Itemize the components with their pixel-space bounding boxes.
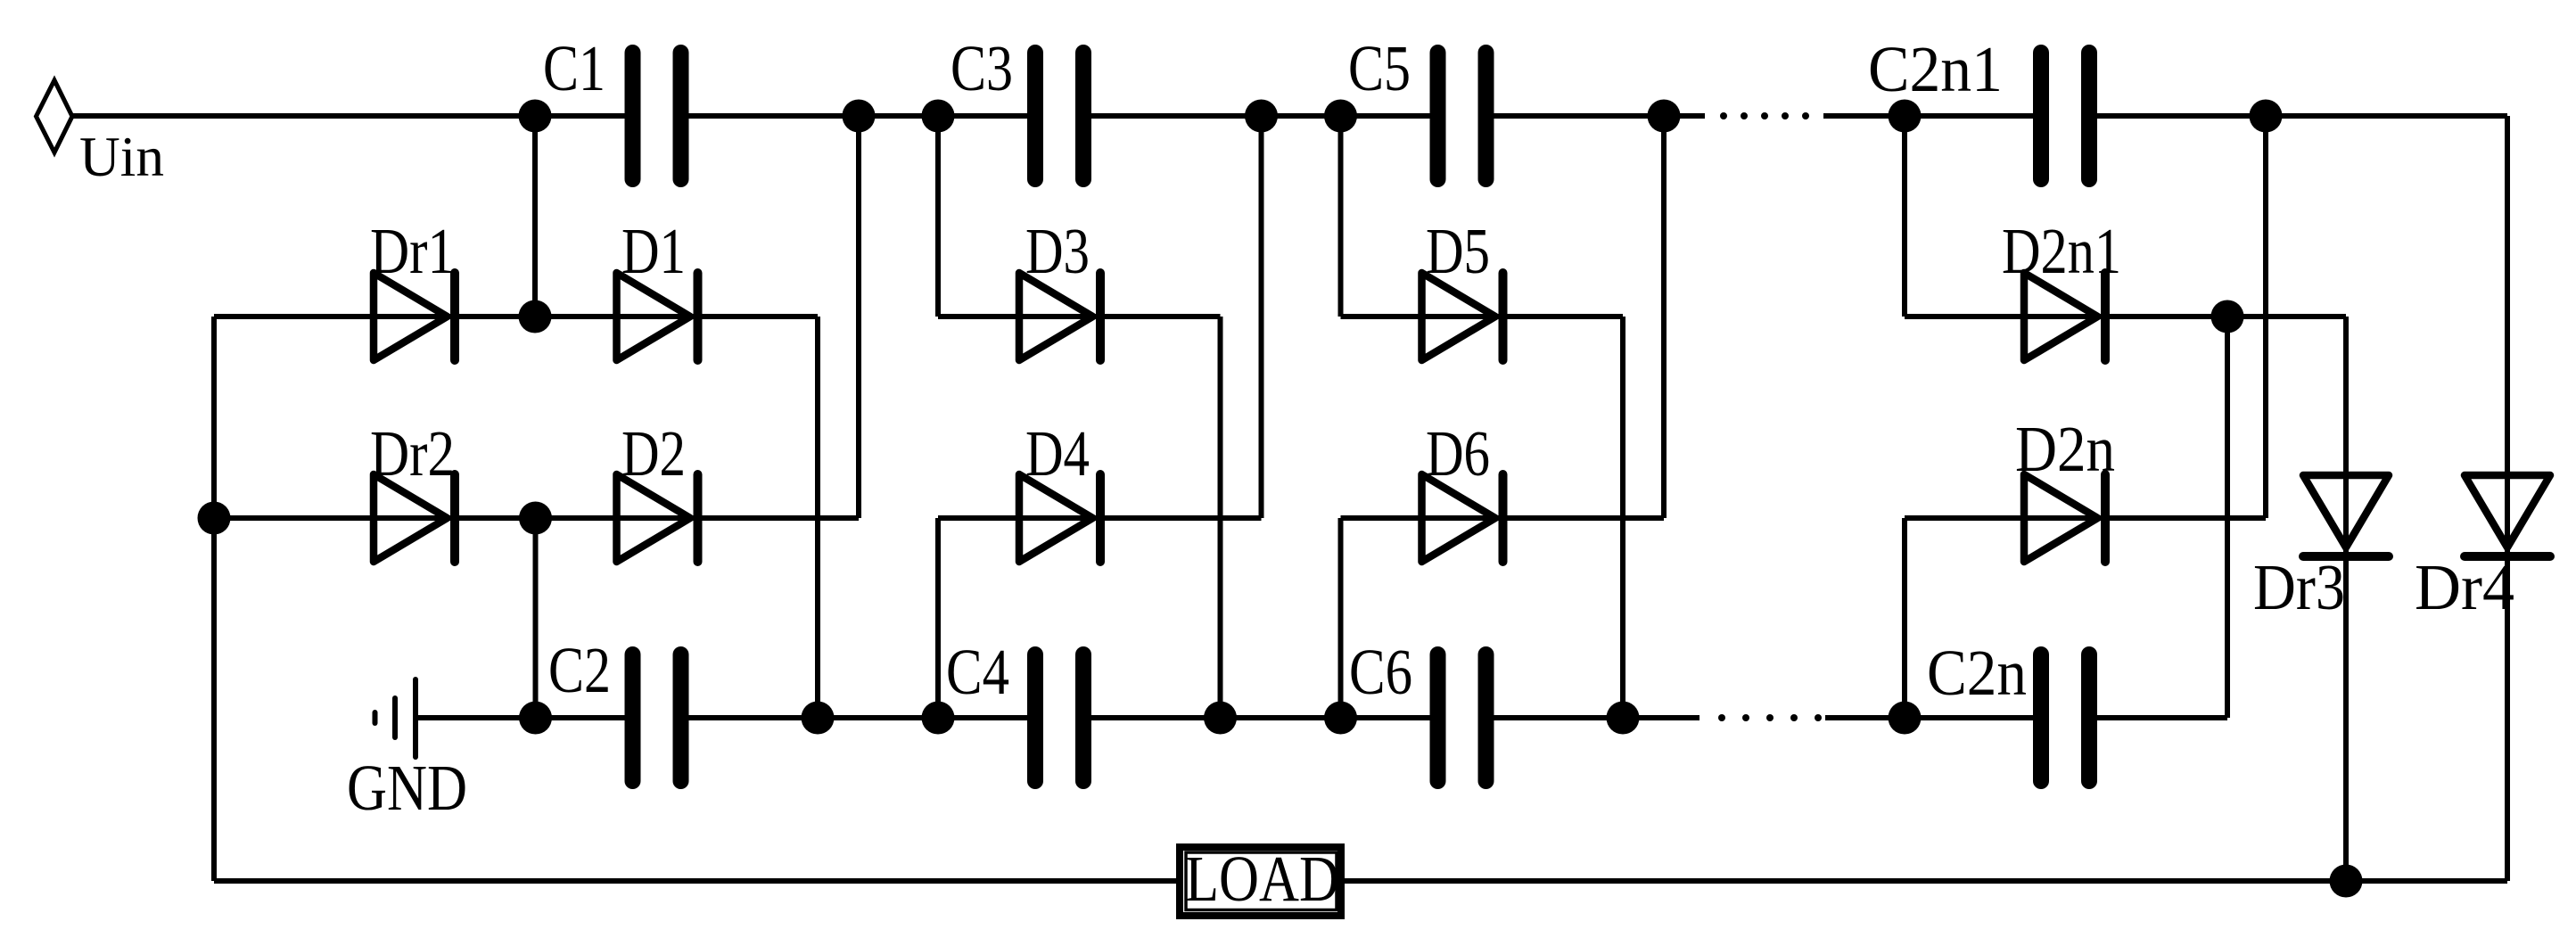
wire C1/D1 node vertical	[532, 116, 538, 317]
diode D1	[617, 273, 698, 360]
wire row1: D2n1 branch to Dr3	[1905, 314, 2346, 319]
svg-text:C5: C5	[1348, 32, 1411, 104]
svg-text:D5: D5	[1426, 215, 1490, 287]
wire D6 anode drop	[1338, 518, 1344, 718]
wire D4 anode drop	[935, 518, 941, 718]
diode Dr1	[374, 273, 455, 360]
wire row2: D2n branch	[1905, 515, 2266, 521]
wire top rail: C3 to C5	[1083, 113, 1438, 119]
capacitor C2n1	[2041, 53, 2089, 179]
wire bottom rail: LOAD to right	[1345, 878, 2507, 884]
node C2n1 left / D2n1 anode	[1889, 100, 1922, 133]
wire D4 cathode riser	[1259, 116, 1264, 518]
node C5 left / D5 anode	[1324, 100, 1357, 133]
wire C2n output riser	[2225, 317, 2230, 718]
svg-text:C1: C1	[543, 32, 605, 104]
node C1 right / D2 cathode	[843, 100, 876, 133]
node C2 left / GND	[519, 702, 552, 735]
wire Dr4 branch vertical	[2505, 116, 2510, 881]
node C5 right / D6 cathode	[1648, 100, 1681, 133]
node C6 right / D5 cathode	[1607, 702, 1640, 735]
diode D2	[617, 474, 698, 562]
wire D5 cathode drop	[1620, 317, 1625, 718]
node D1 anode / Dr1 cathode	[519, 300, 552, 333]
svg-text:LOAD: LOAD	[1185, 843, 1339, 915]
diode Dr2	[374, 474, 455, 562]
node C1 left / top rail	[519, 100, 552, 133]
wire top rail: C2n1 to right corner	[2089, 113, 2507, 119]
wire C3/D3 node vertical	[935, 116, 941, 317]
wire row3: C4 to C6	[1083, 715, 1438, 720]
wire row2: D4 branch	[938, 515, 1262, 521]
wire row3: C2 to C4	[681, 715, 1036, 720]
wire row3: dotted gap to C2n	[1825, 715, 2041, 720]
svg-text:Uin: Uin	[79, 125, 164, 188]
svg-text:GND: GND	[347, 752, 467, 824]
diode D6	[1422, 474, 1503, 562]
wire C5/D5 node vertical	[1338, 116, 1344, 317]
wire row3: C2n to riser	[2089, 715, 2227, 720]
svg-text:C3: C3	[951, 32, 1013, 104]
svg-text:Dr1: Dr1	[370, 215, 455, 287]
capacitor C4	[1035, 654, 1083, 781]
wire D2n anode drop	[1902, 518, 1907, 718]
svg-text:Dr2: Dr2	[370, 417, 455, 490]
wire row1: Dr1/D1 branch	[214, 314, 818, 319]
svg-text:D2n1: D2n1	[2002, 215, 2121, 287]
node C2n left / D2n anode	[1889, 702, 1922, 735]
load box LOAD	[1180, 847, 1341, 916]
wire D2 cathode riser	[856, 116, 861, 518]
diode Dr4	[2465, 475, 2550, 556]
capacitor C2	[633, 654, 681, 781]
svg-text:Dr3: Dr3	[2253, 551, 2345, 623]
wire row2: D6 branch	[1341, 515, 1665, 521]
diode D4	[1019, 474, 1100, 562]
svg-text:C2n: C2n	[1927, 637, 2027, 709]
wire D1 cathode drop	[815, 317, 820, 718]
capacitor C3	[1035, 53, 1083, 179]
node D2n1 cathode / C2n riser	[2211, 300, 2244, 333]
wire D3 cathode drop	[1218, 317, 1223, 718]
dotted continuation, bottom cap row	[1718, 714, 1822, 721]
wire top rail: dotted gap to C2n1	[1823, 113, 2041, 119]
node C3 left / D3 anode	[922, 100, 955, 133]
node Dr2 anode / left border	[198, 502, 231, 535]
node C4 left / D4 anode	[922, 702, 955, 735]
node D2 anode / Dr2 cathode	[519, 502, 552, 535]
node C6 left / D6 anode	[1324, 702, 1357, 735]
wire C2n1/D2n1 node vertical	[1902, 116, 1907, 317]
wire GND to C2	[416, 715, 633, 720]
capacitor C6	[1438, 654, 1486, 781]
capacitor C1	[633, 53, 681, 179]
wire D6 cathode riser	[1661, 116, 1667, 518]
wire top rail: C5 to dotted gap	[1486, 113, 1706, 119]
node C2 right / D1 cathode	[802, 702, 835, 735]
ground GND	[375, 679, 416, 757]
input terminal Uin (diamond)	[37, 80, 73, 152]
diode D2n	[2024, 474, 2105, 562]
wire bottom rail: left to LOAD	[214, 878, 1176, 884]
dotted continuation, top rail	[1720, 112, 1809, 119]
svg-text:C4: C4	[946, 636, 1009, 708]
wire D2n cathode riser	[2263, 116, 2268, 518]
wire Dr3 branch vertical	[2343, 317, 2349, 881]
svg-text:D2n: D2n	[2015, 413, 2115, 485]
svg-text:D2: D2	[621, 417, 686, 490]
svg-text:C6: C6	[1349, 636, 1412, 708]
wire top rail: Uin to C1	[72, 113, 633, 119]
diode D2n1	[2024, 273, 2105, 360]
diode D5	[1422, 273, 1503, 360]
diode Dr3	[2303, 475, 2389, 556]
wire left border vertical	[211, 317, 217, 881]
wire D2 anode drop	[533, 518, 539, 718]
node Dr3 / bottom rail	[2330, 865, 2363, 898]
svg-text:C2n1: C2n1	[1868, 33, 2003, 105]
diode D3	[1019, 273, 1100, 360]
wire row2: Dr2/D2 branch	[214, 515, 859, 521]
node C4 right / D3 cathode	[1204, 702, 1237, 735]
svg-text:D1: D1	[621, 215, 686, 287]
wire row1: D5 branch	[1341, 314, 1624, 319]
svg-text:D3: D3	[1025, 215, 1090, 287]
wire row3: C6 to dotted gap	[1486, 715, 1700, 720]
svg-text:Dr4: Dr4	[2415, 551, 2514, 623]
node C3 right / D4 cathode	[1245, 100, 1278, 133]
svg-text:C2: C2	[548, 634, 611, 706]
node C2n1 right / D2n cathode	[2250, 100, 2283, 133]
svg-text:D4: D4	[1025, 417, 1090, 490]
svg-text:D6: D6	[1426, 417, 1490, 490]
wire row1: D3 branch	[938, 314, 1221, 319]
wire top rail: C1 to C3	[681, 113, 1036, 119]
capacitor C5	[1438, 53, 1486, 179]
capacitor C2n	[2041, 654, 2089, 781]
